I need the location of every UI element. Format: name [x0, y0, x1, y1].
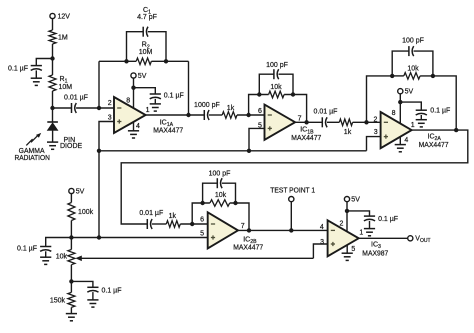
op-amp U2 IC1B MAX4477 [265, 105, 296, 140]
resistor 1M [49, 30, 56, 44]
svg-text:8: 8 [126, 97, 130, 104]
wire feedback left IC1B [249, 95, 269, 116]
wire R2 left [99, 60, 136, 62]
node B junction [50, 106, 54, 110]
wire to 10k [392, 75, 404, 77]
capacitor 100pF IC2A [409, 46, 414, 56]
svg-text:10k: 10k [215, 192, 227, 199]
node IC1B inverting input [246, 113, 250, 117]
node D junction [69, 279, 73, 283]
wire rail P to IC2A pin 3 [367, 137, 381, 151]
ground [416, 120, 427, 127]
wire IC1B output [295, 121, 322, 123]
capacitor C1 4.7pF [143, 27, 148, 37]
wire C1 right loop [148, 32, 166, 62]
junction 100pF left IC2B [200, 201, 204, 205]
wire cap to 1k [152, 223, 166, 225]
terminal 5V IC3 [344, 197, 349, 202]
wire node B to coupling cap [53, 107, 72, 109]
wire IC2B output to IC3 pin 4 [238, 229, 328, 231]
wire C1 left loop [127, 32, 144, 62]
svg-text:4.7 pF: 4.7 pF [137, 14, 157, 21]
wire feedback right IC2B [230, 203, 249, 230]
wire cap to 1k [327, 121, 339, 123]
resistor 10k feedback IC2B [210, 200, 230, 207]
svg-text:6: 6 [258, 108, 262, 115]
op-amp U3 IC2A MAX4477 [381, 112, 412, 148]
wire 150k to ground [70, 307, 72, 313]
capacitor 0.01uF IC2B input [147, 219, 152, 229]
potentiometer wiper arrow [75, 256, 313, 262]
svg-text:MAX987: MAX987 [362, 250, 388, 257]
svg-text:1000 pF: 1000 pF [194, 102, 220, 109]
svg-text:2: 2 [108, 100, 112, 107]
wire IC1A pin 4 to ground [133, 122, 135, 131]
ground [150, 104, 161, 111]
capacitor 0.1uF IC3 bypass [364, 216, 375, 221]
svg-text:1: 1 [146, 107, 150, 114]
wire feedback right IC1B [284, 95, 307, 123]
svg-text:100 pF: 100 pF [266, 62, 288, 69]
ground [40, 257, 51, 264]
node IC1A inverting input [97, 106, 101, 110]
svg-text:0.01 µF: 0.01 µF [139, 210, 163, 217]
wire IC2A pin 4 to ground [399, 137, 401, 145]
node IC2A output [454, 128, 458, 132]
svg-text:10M: 10M [59, 84, 73, 91]
wire node A to bypass cap [36, 59, 52, 66]
gamma radiation arrow [26, 133, 41, 146]
svg-text:4: 4 [136, 123, 140, 130]
capacitor 0.01uF coupling [72, 103, 77, 113]
wire 100pF right loop [279, 74, 294, 94]
wire pot to 150k [70, 265, 72, 293]
op-amp U1 IC1A MAX4477 [114, 97, 146, 133]
wire node C to bypass cap [46, 238, 72, 247]
svg-text:0.1 µF: 0.1 µF [430, 108, 450, 115]
wire cap to ground [92, 292, 94, 300]
svg-text:GAMMA: GAMMA [19, 148, 45, 155]
node IC1A output [186, 113, 190, 117]
capacitor 0.1uF input bypass [31, 66, 42, 71]
wire cap to ground [45, 251, 47, 257]
diode D1 PIN [47, 122, 58, 130]
wire 5V to IC1A pin 8 [133, 78, 135, 108]
capacitor 100pF IC1B [274, 69, 279, 79]
wire cap to ground [35, 70, 37, 78]
svg-text:DIODE: DIODE [60, 143, 83, 150]
wire node D to bypass cap [71, 281, 93, 287]
resistor 1k series 2 [339, 119, 352, 126]
node IC2B output [247, 228, 251, 232]
wire 12V to 1M [52, 19, 54, 30]
svg-text:0.1 µF: 0.1 µF [8, 66, 28, 73]
svg-text:100 pF: 100 pF [209, 170, 231, 177]
svg-text:MAX4477: MAX4477 [233, 245, 263, 252]
svg-text:MAX4477: MAX4477 [153, 128, 183, 135]
resistor 150k [68, 292, 75, 307]
wire feedback left IC2B [192, 203, 210, 224]
svg-text:4: 4 [320, 224, 324, 231]
svg-text:7: 7 [241, 223, 245, 230]
ground [364, 229, 375, 236]
svg-text:6: 6 [200, 216, 204, 223]
terminal 5V IC2A [398, 89, 403, 94]
svg-text:0.01 µF: 0.01 µF [314, 109, 338, 116]
ground [128, 131, 139, 138]
junction 100pF right IC1B [291, 92, 295, 96]
wire R1 to node B and diode [52, 91, 54, 122]
svg-text:5: 5 [200, 231, 204, 238]
svg-text:150k: 150k [50, 298, 66, 305]
svg-text:0.1 µF: 0.1 µF [378, 216, 398, 223]
svg-text:10k: 10k [56, 254, 68, 261]
capacitor 0.1uF divider bypass [40, 247, 51, 252]
wire 100k to pot [70, 221, 72, 250]
terminal VOUT [408, 236, 413, 241]
node C junction [69, 235, 73, 239]
svg-text:TEST POINT 1: TEST POINT 1 [270, 188, 315, 195]
wire cap to ground [154, 99, 156, 104]
svg-text:RADIATION: RADIATION [14, 155, 50, 162]
wire R2 right [151, 60, 188, 62]
svg-text:1k: 1k [344, 129, 352, 136]
svg-text:2: 2 [373, 117, 377, 124]
junction C1 left [124, 59, 128, 63]
wire feedback right IC1A [188, 61, 190, 115]
capacitor 100pF IC2B [217, 178, 222, 188]
svg-text:MAX4477: MAX4477 [419, 142, 449, 149]
svg-text:MAX4477: MAX4477 [291, 135, 321, 142]
svg-text:1M: 1M [58, 35, 68, 42]
wire cap to ground [369, 221, 371, 229]
node A junction [50, 56, 54, 60]
svg-text:12V: 12V [58, 14, 71, 21]
wire 5V to IC2A pin 8 [399, 94, 401, 123]
svg-text:5V: 5V [76, 189, 85, 196]
junction rail P [97, 149, 101, 153]
wire wiper to IC3 pin 3 [313, 244, 327, 258]
wire IC1B pin 5 down [249, 128, 265, 150]
svg-text:10k: 10k [407, 65, 419, 72]
svg-text:4: 4 [404, 137, 408, 144]
wire IC3 output to VOUT [359, 237, 408, 239]
wire 1k to IC2A pin 2 [353, 121, 381, 123]
svg-text:5V: 5V [405, 89, 414, 96]
svg-text:8: 8 [392, 110, 396, 117]
node IC1B output [304, 120, 308, 124]
terminal 5V divider [69, 188, 74, 193]
terminal 5V IC1A [131, 73, 136, 78]
capacitor 0.1uF IC1A bypass [150, 94, 161, 99]
resistor 1k IC2B input [166, 221, 180, 228]
wire 1k to IC1B pin 6 [237, 114, 265, 116]
resistor 10k potentiometer [68, 250, 75, 265]
wire rail R to IC2B pin 5 [71, 237, 207, 239]
terminal TEST POINT 1 [289, 197, 294, 202]
svg-text:10k: 10k [270, 84, 282, 91]
svg-text:100 pF: 100 pF [402, 38, 424, 45]
ground [66, 314, 77, 321]
ground [47, 142, 58, 149]
ground [395, 145, 406, 152]
junction 5V IC1A [131, 86, 135, 90]
svg-text:0.1 µF: 0.1 µF [164, 93, 184, 100]
wire to IC1A bypass cap [134, 88, 156, 94]
junction 100pF right IC2A [431, 74, 435, 78]
wire cap to ground [420, 115, 422, 120]
svg-text:0.1 µF: 0.1 µF [17, 246, 37, 253]
junction 100pF left IC2A [390, 74, 394, 78]
svg-text:3: 3 [374, 129, 378, 136]
wire 1k to IC2B pin 6 [180, 223, 207, 225]
node IC2A inverting input [364, 120, 368, 124]
wire 100pF left loop [203, 183, 218, 203]
terminal 12V [50, 13, 55, 18]
ground [87, 300, 98, 307]
junction 100pF right IC2B [233, 201, 237, 205]
wire feedback right IC2A [420, 76, 456, 130]
svg-text:0.01 µF: 0.01 µF [64, 95, 88, 102]
capacitor 0.01uF coupling 2 [322, 117, 327, 127]
op-amp U4 IC2B MAX4477 [208, 212, 238, 248]
wire 1M to R1 [52, 44, 54, 75]
wire to IC2A bypass cap [400, 102, 421, 110]
resistor 100k [68, 203, 75, 221]
capacitor 1000pF coupling [204, 110, 209, 120]
wire IC1A pin 3 rail [99, 122, 114, 238]
svg-text:1k: 1k [169, 213, 177, 220]
junction 100pF left IC1B [257, 92, 261, 96]
wire 100pF left loop [392, 51, 409, 76]
svg-text:3: 3 [320, 239, 324, 246]
wire IC1A output [146, 114, 205, 116]
wire 100pF right loop [414, 51, 433, 76]
ground [342, 253, 353, 260]
svg-text:5: 5 [351, 246, 355, 253]
wire feedback left IC1A [98, 61, 100, 108]
wire IC3 pin 5 to ground [346, 245, 348, 253]
resistor 1k series [222, 112, 237, 119]
capacitor 0.1uF wiper bypass [87, 287, 98, 292]
resistor R1 10M [49, 75, 56, 91]
wire cap to 1k [209, 114, 222, 116]
wire cap to IC1A pin 2 [76, 107, 114, 109]
svg-text:0.1 µF: 0.1 µF [102, 288, 122, 295]
wire test point [290, 202, 292, 231]
junction 5V IC2A [398, 100, 402, 104]
svg-text:5V: 5V [351, 197, 360, 204]
junction C1 right [164, 59, 168, 63]
junction rail R [97, 235, 101, 239]
svg-text:1: 1 [359, 230, 363, 237]
svg-text:1: 1 [411, 122, 415, 129]
wire 5V to IC3 pin 2 [346, 202, 348, 232]
wire rail P noninverting reference [99, 150, 367, 152]
svg-text:10M: 10M [139, 49, 153, 56]
wire IC2A output to IC2B input [121, 130, 468, 224]
junction 5V IC3 [345, 209, 349, 213]
wire 100pF left loop [259, 74, 274, 94]
wire 5V to 100k [70, 194, 72, 203]
wire 100pF right loop [222, 183, 236, 203]
node IC2B inverting input [190, 222, 194, 226]
svg-text:5V: 5V [138, 73, 147, 80]
wire diode to ground [52, 130, 54, 142]
op-amp U5 IC3 MAX987 [328, 220, 359, 256]
svg-text:3: 3 [108, 115, 112, 122]
resistor 10k feedback IC2A [404, 73, 420, 80]
svg-text:7: 7 [298, 115, 302, 122]
wire to IC3 bypass cap [347, 211, 370, 216]
wire feedback left IC2A [367, 76, 393, 122]
capacitor 0.1uF IC2A bypass [416, 110, 427, 115]
junction IC1B pin 5 [247, 149, 251, 153]
resistor R2 10M [136, 58, 151, 65]
resistor 10k feedback IC1B [269, 91, 285, 98]
svg-text:100k: 100k [78, 209, 94, 216]
svg-text:2: 2 [339, 221, 343, 228]
ground [31, 78, 42, 85]
junction test point [289, 228, 293, 232]
